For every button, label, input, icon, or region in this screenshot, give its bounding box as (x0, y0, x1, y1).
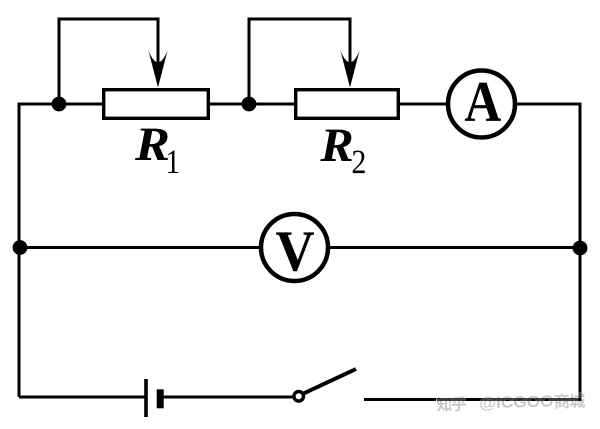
rheostat R1 body (104, 90, 209, 119)
watermark 知乎 @ICGOO商城 (437, 393, 586, 412)
R2 slider arrowhead (340, 51, 359, 88)
node junction dot at R1 tap (52, 97, 67, 112)
wire bottom-right seen through watermark (437, 398, 582, 401)
label R2 letter R (320, 130, 351, 161)
battery short thick plate (157, 389, 164, 408)
wire left vertical (18, 104, 21, 397)
voltmeter letter V (276, 232, 314, 271)
label R1 letter R (135, 129, 168, 160)
wire battery to switch (164, 396, 294, 399)
wire ammeter to top-right corner (514, 103, 582, 106)
ammeter body circle (448, 71, 515, 138)
wire bottom left to battery (19, 396, 145, 399)
label R1 subscript 1 (168, 151, 178, 173)
switch lever (304, 369, 357, 394)
wire middle left to voltmeter (19, 246, 262, 249)
wire R2 to ammeter (399, 103, 449, 106)
wire switch to bottom-right corner (364, 398, 582, 401)
node junction dot left voltmeter branch (13, 240, 28, 255)
wire right vertical seen through watermark (579, 383, 582, 401)
node junction dot right voltmeter branch (573, 241, 588, 256)
rheostat R2 body (296, 90, 399, 119)
node junction dot at R2 tap (242, 97, 257, 112)
label R2 subscript 2 (353, 151, 365, 174)
R2 slider wire (249, 19, 350, 104)
wire top left segment (18, 103, 104, 106)
battery long plate (144, 379, 148, 417)
wire middle right from voltmeter (327, 246, 580, 249)
R1 slider arrowhead (148, 51, 167, 88)
voltmeter body circle (261, 214, 328, 281)
ammeter letter A (465, 83, 501, 121)
wire between R1 and R2 (209, 103, 295, 106)
wire right vertical (579, 103, 582, 400)
R1 slider wire (59, 19, 158, 104)
switch pivot circle (294, 392, 304, 402)
